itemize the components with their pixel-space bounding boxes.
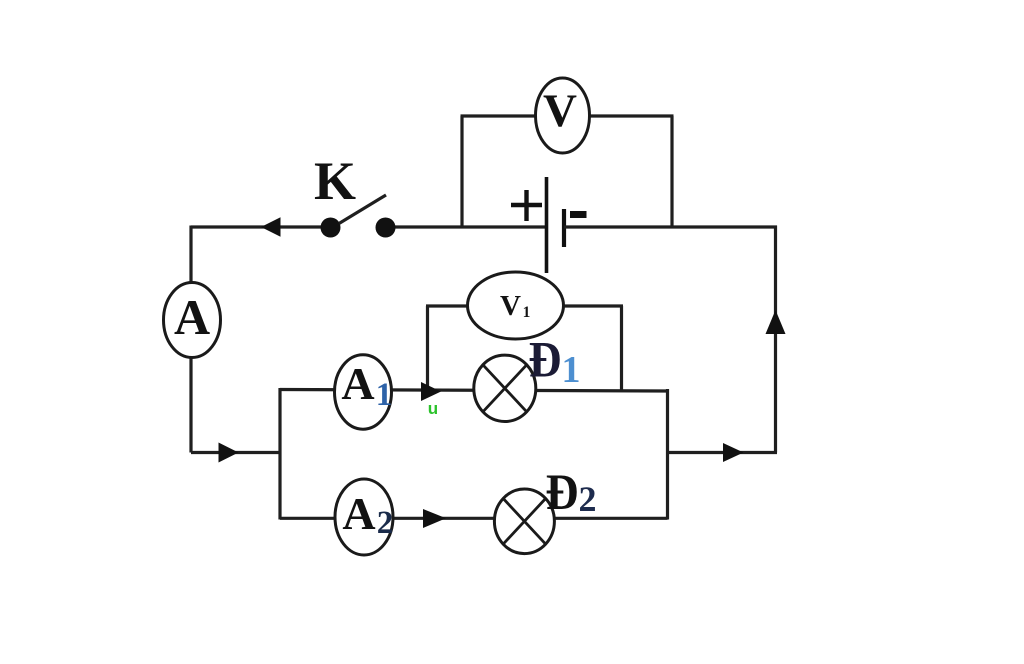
battery short plate (-): [562, 209, 566, 247]
arrow right on bottom-right wire: [723, 443, 744, 462]
battery minus sign: [570, 211, 587, 218]
voltmeter V loop left vertical: [460, 116, 463, 227]
lamp D2: [494, 489, 554, 554]
battery plus sign: [511, 190, 542, 221]
battery long plate (+): [545, 177, 549, 273]
svg-text:K: K: [314, 151, 356, 211]
svg-text:1: 1: [376, 377, 393, 413]
svg-text:2: 2: [377, 505, 394, 541]
arrow up on right column: [766, 310, 786, 334]
wire top-left horizontal (battery to switch to left column): [191, 225, 330, 228]
svg-text:V: V: [543, 85, 577, 137]
voltmeter V1: [468, 272, 564, 339]
arrow left-pointing on top wire: [261, 217, 281, 236]
svg-text:A: A: [342, 488, 375, 539]
ammeter A2: [335, 479, 393, 555]
switch K left contact dot: [321, 218, 341, 238]
wire left column vertical: [189, 226, 192, 453]
ammeter A1: [335, 355, 392, 429]
main wire bottom-right: [668, 451, 778, 454]
wire right column vertical: [774, 226, 777, 453]
voltmeter V loop left horizontal: [461, 114, 541, 117]
svg-text:A: A: [174, 289, 210, 345]
arrow right on bottom-left wire: [219, 443, 239, 463]
svg-text:Đ: Đ: [529, 333, 562, 389]
main wire bottom-left: [191, 451, 280, 454]
svg-text:1: 1: [562, 349, 581, 391]
svg-text:V: V: [500, 290, 521, 322]
voltmeter V loop right horizontal: [586, 114, 674, 117]
wire battery to right column: [564, 225, 777, 228]
wire switch right dot to battery: [386, 225, 546, 228]
ammeter A: [164, 283, 221, 358]
svg-text:A: A: [341, 358, 374, 409]
arrow right on branch 2: [423, 509, 446, 528]
voltmeter V1 right vertical wire: [620, 306, 623, 391]
svg-text:Đ: Đ: [546, 465, 579, 521]
branch 2 wire: [280, 517, 668, 520]
arrow right on branch 1: [421, 382, 441, 401]
parallel box left vertical: [278, 388, 281, 520]
svg-text:2: 2: [579, 479, 597, 519]
voltmeter V loop right vertical: [670, 116, 673, 227]
branch 1 wire: [280, 390, 668, 392]
svg-text:1: 1: [523, 304, 531, 321]
voltmeter V1 left horizontal wire: [426, 304, 470, 307]
voltmeter V: [536, 78, 590, 153]
svg-text:u: u: [428, 399, 438, 418]
switch K right contact dot: [376, 218, 396, 238]
switch K lever: [339, 195, 386, 224]
lamp D1: [474, 355, 536, 421]
parallel box right vertical: [666, 389, 669, 520]
voltmeter V1 left vertical wire: [426, 306, 429, 390]
voltmeter V1 right horizontal wire: [561, 304, 623, 307]
